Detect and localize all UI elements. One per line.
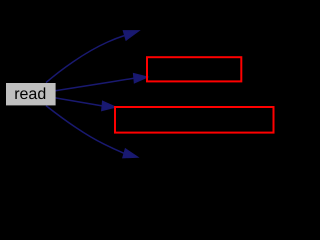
node read (grey box) bbox=[6, 83, 56, 105]
arrowhead edge 3 bbox=[102, 101, 116, 111]
arrowhead edge 4 bbox=[123, 149, 138, 158]
edge read->bottom node (wire) bbox=[46, 106, 124, 154]
arrowhead edge 2 bbox=[133, 73, 147, 83]
edge read->top node (wire) bbox=[46, 36, 125, 83]
arrowhead edge 1 bbox=[123, 31, 139, 41]
red node box 2 bbox=[115, 107, 274, 133]
svg-text:read: read bbox=[14, 86, 46, 103]
edge read->red box 1 (wire) bbox=[55, 78, 134, 91]
red node box 1 bbox=[147, 57, 241, 81]
edge read->red box 2 (wire) bbox=[55, 98, 102, 106]
